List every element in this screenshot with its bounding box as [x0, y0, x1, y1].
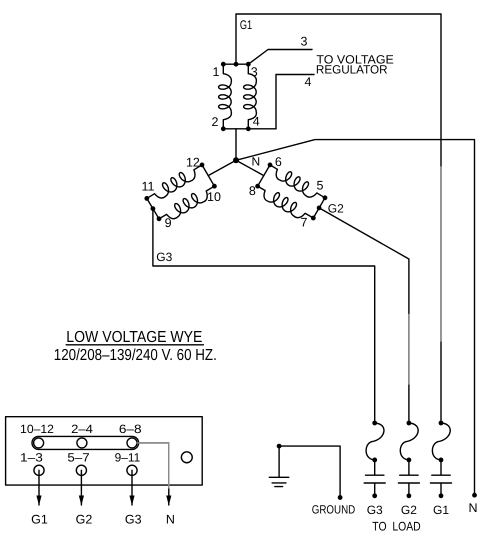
- lead arrow G2: [80, 470, 82, 505]
- node terminal 5: [323, 195, 328, 200]
- wire N run to bottom right: [236, 140, 475, 496]
- CT loop and terminal G3: [364, 421, 385, 517]
- node terminal 7: [311, 216, 316, 221]
- svg-text:REGULATOR: REGULATOR: [316, 63, 388, 77]
- wire bar 12-10: [202, 165, 214, 186]
- svg-text:G3: G3: [367, 503, 383, 517]
- svg-text:5: 5: [317, 178, 324, 192]
- winding coil 10-9: [156, 182, 218, 226]
- svg-text:G1: G1: [240, 18, 252, 32]
- terminal aux: [181, 452, 192, 463]
- wire G3 run: [153, 209, 375, 423]
- lead arrow G3: [131, 470, 133, 505]
- ground symbol: [269, 446, 289, 487]
- winding coil 6-5: [265, 161, 327, 205]
- terminal 1-3: [34, 465, 44, 475]
- node N: [233, 157, 239, 163]
- svg-text:12: 12: [186, 155, 200, 169]
- node N bottom: [472, 493, 477, 498]
- svg-text:8: 8: [249, 184, 256, 198]
- wire 4 to voltage regulator: [276, 75, 314, 129]
- winding coil 12-11: [144, 161, 206, 205]
- wire center to node N: [235, 129, 237, 161]
- wire bar 11-9: [147, 198, 159, 218]
- jumper bus bar 10-12 / 2-4 / 6-8: [32, 436, 139, 449]
- svg-text:N: N: [468, 501, 477, 515]
- node ground left: [277, 444, 282, 449]
- terminal block outline: [6, 417, 203, 485]
- ground tie wire: [279, 446, 340, 497]
- node G2 tap: [317, 206, 322, 211]
- winding coil 8-7: [253, 182, 315, 225]
- svg-text:4: 4: [253, 115, 260, 129]
- wire G1 grey section: [440, 167, 442, 341]
- node terminal 6: [268, 163, 273, 168]
- svg-text:9: 9: [165, 216, 172, 230]
- svg-text:1–3: 1–3: [20, 451, 43, 465]
- svg-text:2: 2: [211, 115, 218, 129]
- svg-text:G2: G2: [401, 503, 417, 517]
- svg-text:G1: G1: [31, 513, 48, 527]
- wire G1 riser and top run: [236, 14, 441, 423]
- wire N to left winding: [208, 160, 236, 175]
- node G1 tap: [234, 62, 239, 67]
- wire bar 5-7: [313, 198, 325, 218]
- svg-text:G3: G3: [156, 250, 172, 264]
- svg-text:G2: G2: [328, 202, 344, 216]
- svg-text:9–11: 9–11: [115, 451, 141, 465]
- svg-text:N: N: [166, 513, 175, 527]
- svg-text:G2: G2: [76, 513, 93, 527]
- wire bottom bar 2-4 extended: [223, 128, 276, 130]
- wire G2 grey section: [408, 315, 410, 385]
- wire N jumper grey section: [137, 443, 169, 488]
- svg-text:2–4: 2–4: [71, 422, 93, 436]
- svg-text:1: 1: [213, 65, 220, 79]
- wire 3 to voltage regulator: [248, 50, 312, 65]
- svg-text:G3: G3: [125, 513, 142, 527]
- terminal 10-12: [34, 438, 44, 448]
- CT loop and terminal G2: [398, 421, 419, 517]
- svg-text:G1: G1: [433, 503, 449, 517]
- svg-text:3: 3: [251, 65, 258, 79]
- wire N to right winding: [236, 160, 264, 175]
- svg-text:4: 4: [305, 75, 312, 89]
- node terminal 10: [212, 184, 217, 189]
- svg-text:GROUND: GROUND: [312, 503, 356, 517]
- node terminal 11: [144, 196, 149, 201]
- terminal 5-7: [76, 465, 86, 475]
- svg-text:120/208–139/240 V. 60 HZ.: 120/208–139/240 V. 60 HZ.: [54, 347, 217, 364]
- svg-text:LOW VOLTAGE WYE: LOW VOLTAGE WYE: [66, 329, 202, 346]
- svg-text:6–8: 6–8: [119, 422, 142, 436]
- svg-text:10: 10: [207, 190, 221, 204]
- terminal 2-4: [77, 438, 87, 448]
- node terminal 4: [246, 126, 251, 131]
- svg-text:10–12: 10–12: [20, 422, 54, 436]
- node terminal 2: [221, 126, 226, 131]
- winding coil 3-4: [244, 64, 257, 129]
- wire G2 run: [319, 208, 409, 423]
- svg-text:N: N: [252, 155, 261, 169]
- svg-text:TO LOAD: TO LOAD: [372, 520, 420, 534]
- terminal 9-11: [127, 465, 137, 475]
- node ground right: [338, 495, 343, 500]
- svg-text:11: 11: [142, 180, 155, 194]
- wire bar 6-8: [258, 165, 270, 186]
- lead arrow G1: [38, 470, 40, 505]
- CT loop and terminal G1: [431, 421, 452, 517]
- lead arrow N: [166, 496, 171, 506]
- node terminal 12: [200, 163, 205, 168]
- winding coil 1-2: [219, 64, 232, 129]
- svg-text:7: 7: [301, 215, 308, 229]
- wire top bar 1-3: [223, 63, 248, 65]
- node terminal 8: [255, 184, 260, 189]
- svg-text:6: 6: [275, 155, 282, 169]
- node terminal 3: [246, 62, 251, 67]
- svg-text:5–7: 5–7: [67, 451, 90, 465]
- wire N jumper takeoff: [137, 443, 169, 505]
- terminal 6-8: [127, 438, 137, 448]
- svg-text:3: 3: [301, 35, 308, 49]
- node G3 tap: [151, 206, 156, 211]
- node terminal 9: [157, 216, 162, 221]
- node terminal 1: [221, 62, 226, 67]
